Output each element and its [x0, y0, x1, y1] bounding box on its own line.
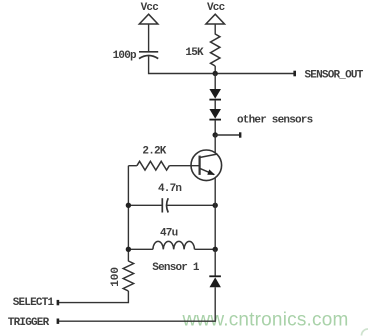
wire C1 to emitter rail [166, 204, 215, 206]
wire left rail vertical [127, 166, 129, 262]
svg-text:SELECT1: SELECT1 [13, 297, 55, 309]
wire L1 to right rail [195, 248, 216, 250]
transistor Q1 collector stroke [200, 154, 218, 158]
power Vcc (left) arrow [139, 14, 158, 24]
svg-text:Sensor 1: Sensor 1 [152, 262, 200, 274]
wire C2 to net SENSOR_OUT [149, 56, 294, 73]
svg-text:15K: 15K [185, 47, 204, 59]
transistor Q1 body circle [191, 150, 222, 181]
svg-text:4.7n: 4.7n [158, 183, 181, 195]
resistor R2 2.2K [137, 161, 169, 170]
wire R3 to SELECT1 [58, 291, 129, 303]
svg-text:TRIGGER: TRIGGER [8, 317, 50, 329]
wire L1 junction to D3 [214, 249, 216, 275]
resistor R3 100 [123, 261, 133, 291]
junction other-sensors node [213, 132, 218, 137]
junction L1 right [213, 247, 218, 252]
wire D1 to D2 [214, 100, 216, 109]
svg-text:other sensors: other sensors [237, 115, 313, 127]
wire left rail to C1 [128, 204, 162, 206]
svg-text:100p: 100p [113, 50, 137, 62]
wire Q1 emitter down [214, 178, 216, 250]
diode D1 [209, 89, 221, 101]
wire Vcc-right to R1 [214, 24, 216, 35]
svg-text:Vcc: Vcc [207, 2, 225, 14]
wire left rail to L1 [128, 248, 153, 250]
wire Vcc-left to C2 [148, 24, 150, 52]
svg-text:47u: 47u [160, 227, 178, 239]
port tick other sensors stub [239, 132, 241, 137]
transistor Q1 emitter stroke with arrow [200, 168, 215, 174]
diode D3 [209, 275, 221, 287]
resistor R1 15K [211, 34, 220, 66]
transistor Q1 base bar [199, 156, 201, 175]
power Vcc (right) arrow [206, 14, 225, 24]
diode D2 [209, 109, 221, 121]
junction at SENSOR_OUT node [213, 71, 218, 76]
wire R2 to Q1 base [169, 165, 199, 167]
wire R1 to junction [214, 66, 216, 74]
wire D2 to stub junction [214, 120, 216, 135]
wire junction to D1 [214, 74, 216, 90]
port tick SENSOR_OUT [293, 71, 296, 77]
svg-text:100: 100 [110, 267, 122, 287]
wire junction to Q1 collector [214, 135, 216, 153]
svg-text:2.2K: 2.2K [142, 146, 166, 158]
junction C1 left [126, 203, 131, 208]
svg-text:www.cntronics.com: www.cntronics.com [182, 309, 349, 330]
watermark corner logo [362, 329, 368, 336]
wire left rail to R2 [128, 165, 137, 167]
wire stub to other sensors [215, 134, 239, 136]
svg-text:Vcc: Vcc [141, 2, 159, 14]
capacitor C1 4.7n [162, 198, 168, 212]
port tick TRIGGER [57, 319, 60, 324]
inductor L1 47u [153, 241, 195, 249]
junction C1 right [213, 203, 218, 208]
wire D3 to TRIGGER [58, 287, 216, 321]
junction L1 left [126, 247, 131, 252]
capacitor C2 100p [139, 52, 158, 59]
port tick SELECT1 [57, 300, 60, 305]
svg-text:SENSOR_OUT: SENSOR_OUT [305, 70, 364, 82]
